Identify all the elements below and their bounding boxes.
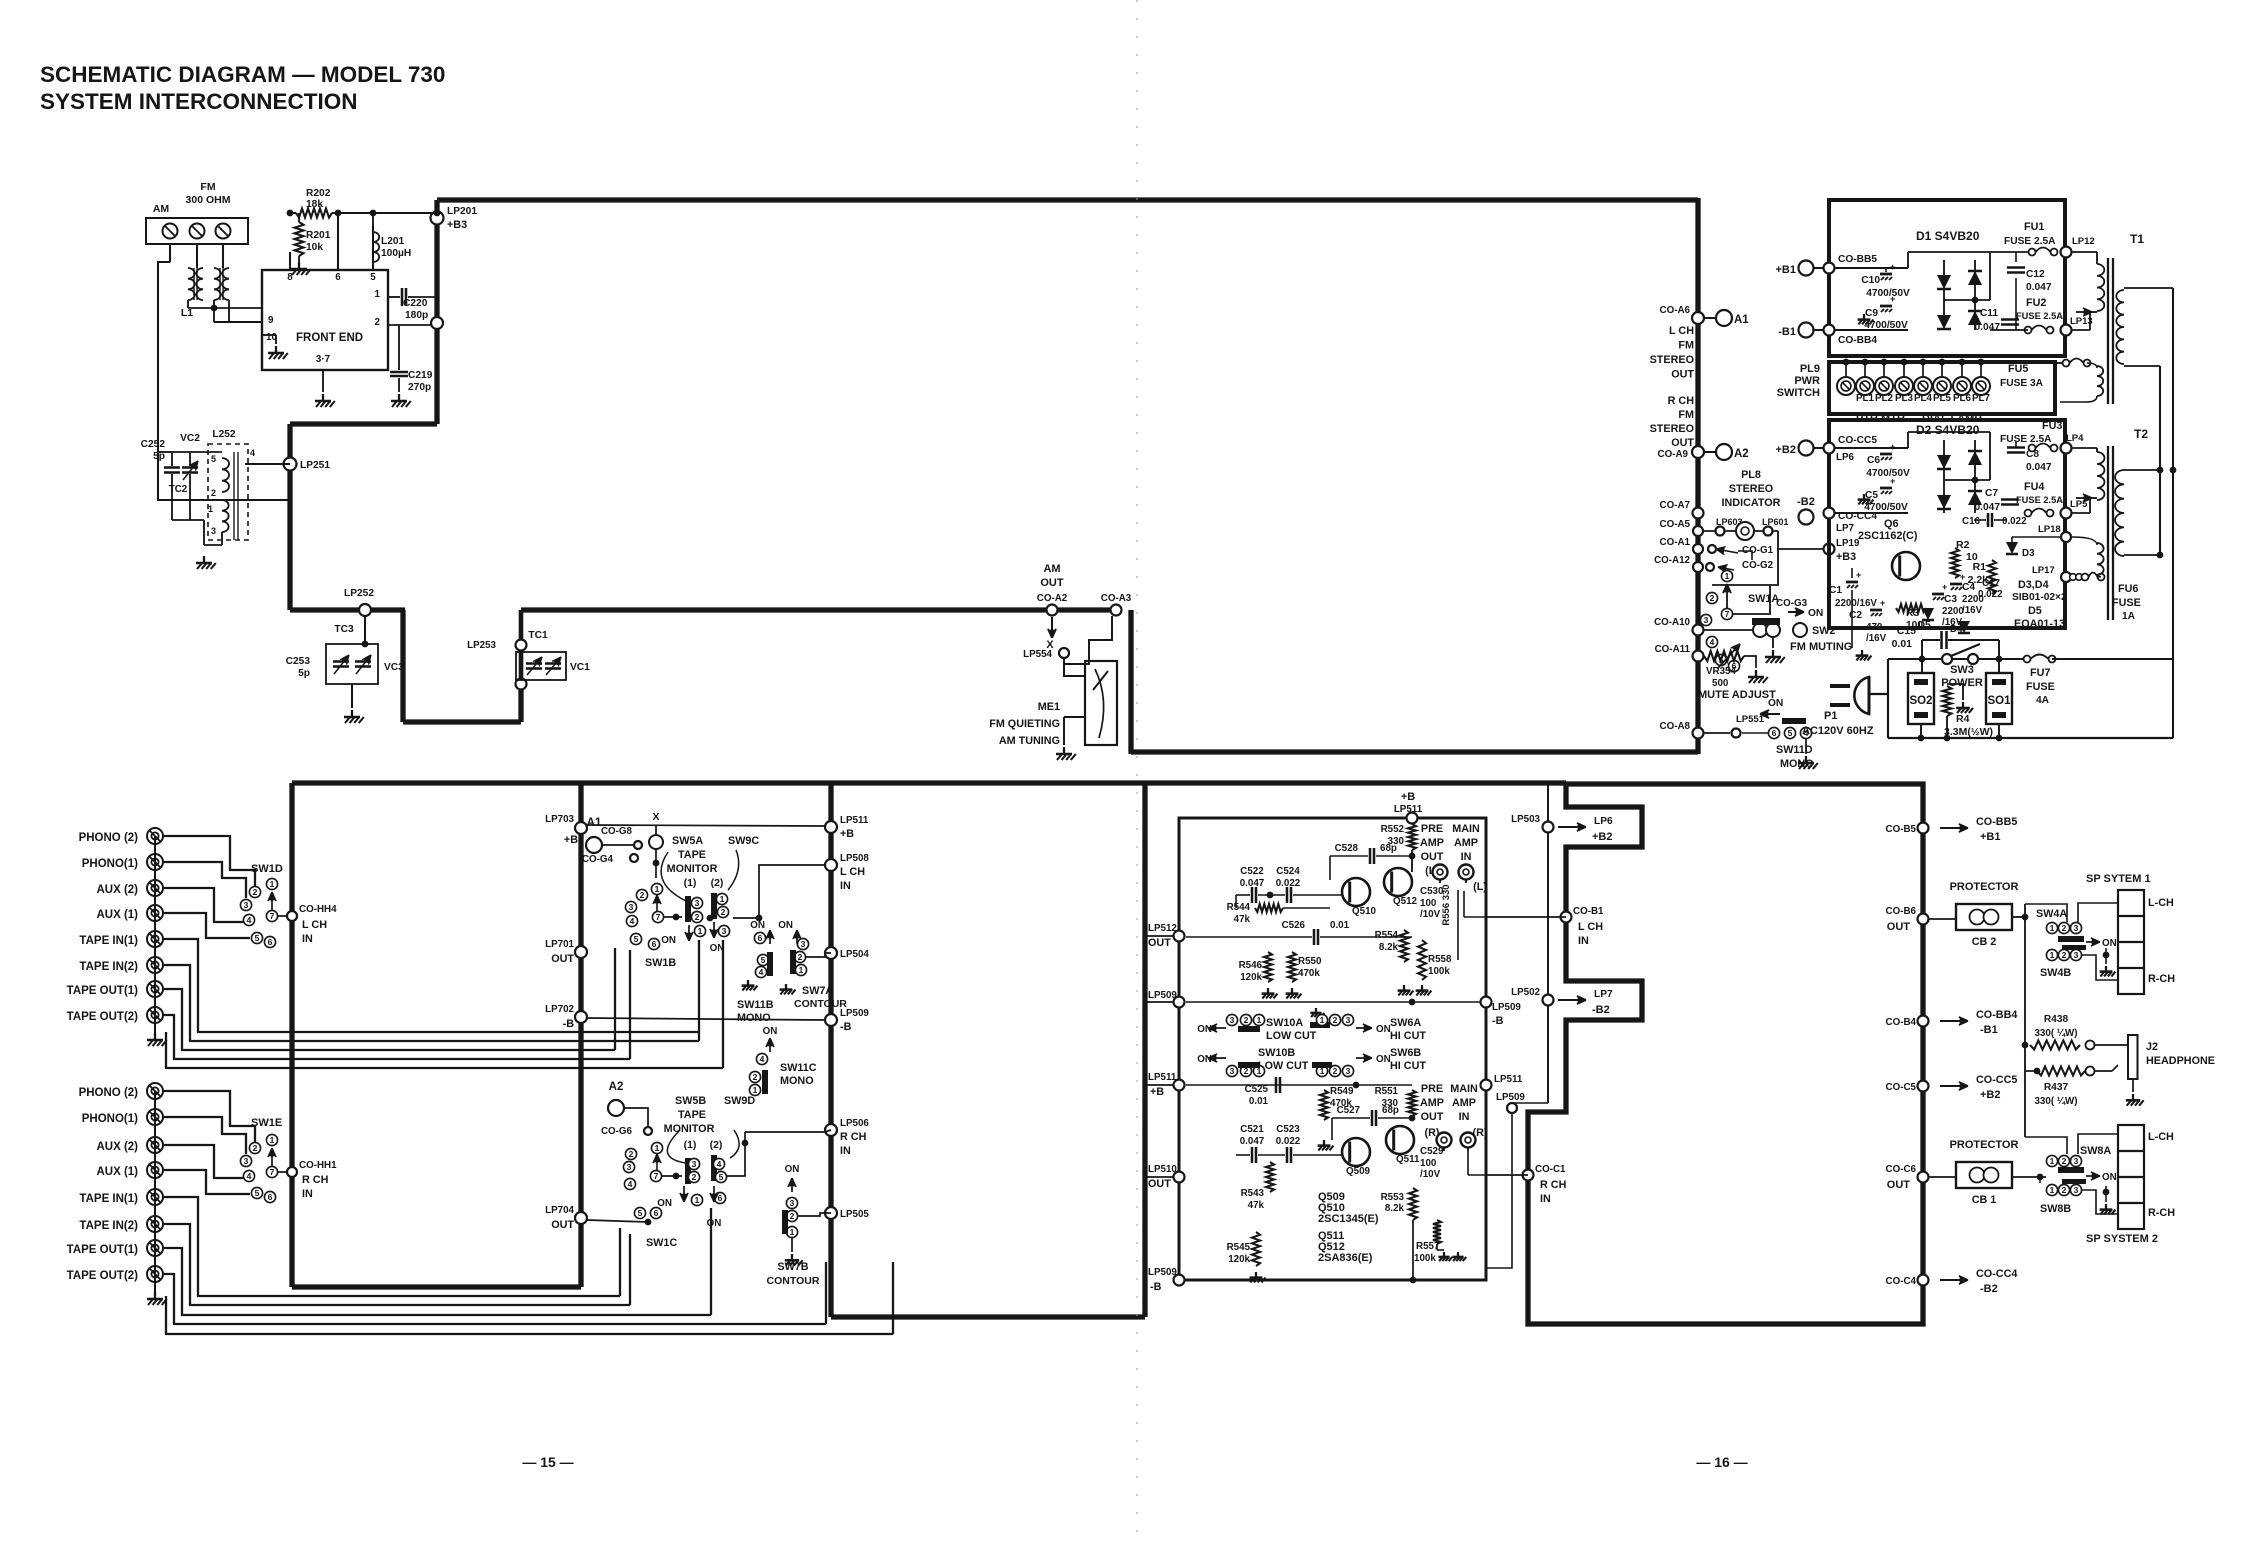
- svg-text:1: 1: [790, 1227, 795, 1237]
- svg-text:C252: C252: [141, 439, 166, 450]
- svg-text:0.022: 0.022: [2002, 516, 2027, 527]
- svg-text:LP509: LP509: [1496, 1092, 1525, 1103]
- svg-text:CO-B4: CO-B4: [1886, 1017, 1917, 1028]
- svg-text:-B: -B: [1492, 1015, 1504, 1027]
- svg-text:-B2: -B2: [1797, 496, 1815, 508]
- svg-text:-B: -B: [840, 1021, 852, 1033]
- svg-text:A1: A1: [587, 817, 602, 829]
- svg-text:PL3: PL3: [1895, 393, 1914, 404]
- svg-text:LP510: LP510: [1148, 1164, 1177, 1175]
- svg-text:4: 4: [759, 967, 764, 977]
- svg-text:C528: C528: [1335, 843, 1359, 854]
- svg-text:SP SYTEM 1: SP SYTEM 1: [2086, 873, 2151, 885]
- svg-text:5: 5: [255, 1188, 260, 1198]
- svg-text:IN: IN: [302, 1188, 313, 1200]
- svg-text:SWITCH: SWITCH: [1777, 387, 1820, 399]
- svg-text:FM QUIETING: FM QUIETING: [989, 718, 1060, 730]
- svg-text:6: 6: [718, 1193, 723, 1203]
- svg-text:FUSE: FUSE: [2026, 681, 2055, 693]
- svg-text:SW6A: SW6A: [1390, 1017, 1421, 1029]
- svg-text:0.022: 0.022: [1276, 1136, 1301, 1147]
- svg-text:FM: FM: [1678, 340, 1694, 352]
- svg-text:SW10A: SW10A: [1266, 1017, 1303, 1029]
- svg-text:1: 1: [270, 879, 275, 889]
- svg-text:0.01: 0.01: [1249, 1096, 1269, 1107]
- svg-text:ON: ON: [707, 1218, 722, 1229]
- svg-text:0.047: 0.047: [2026, 462, 2052, 473]
- svg-text:A1: A1: [1734, 314, 1749, 326]
- svg-text:LP511: LP511: [840, 815, 869, 826]
- svg-text:6: 6: [758, 933, 763, 943]
- svg-text:/16V: /16V: [1866, 633, 1887, 644]
- svg-text:FUSE 2.5A: FUSE 2.5A: [2016, 311, 2063, 321]
- svg-text:SW6B: SW6B: [1390, 1047, 1421, 1059]
- svg-text:2: 2: [253, 1143, 258, 1153]
- svg-text:AUX (2): AUX (2): [96, 1141, 138, 1153]
- svg-text:FRONT END: FRONT END: [296, 332, 363, 344]
- svg-text:CO-A5: CO-A5: [1660, 519, 1691, 530]
- svg-text:OUT: OUT: [1887, 921, 1911, 933]
- svg-text:1: 1: [375, 289, 381, 300]
- svg-text:1A: 1A: [2122, 611, 2136, 622]
- svg-text:CO-A8: CO-A8: [1660, 721, 1691, 732]
- svg-text:C17: C17: [1982, 578, 2001, 589]
- svg-text:PHONO (2): PHONO (2): [79, 1087, 139, 1099]
- svg-text:CO-C6: CO-C6: [1886, 1164, 1917, 1175]
- svg-text:TAPE IN(2): TAPE IN(2): [79, 961, 138, 973]
- svg-text:AMP: AMP: [1452, 1097, 1476, 1109]
- svg-text:LP17: LP17: [2032, 565, 2055, 576]
- svg-text:-B: -B: [1150, 1281, 1162, 1293]
- svg-text:2SC1345(E): 2SC1345(E): [1318, 1213, 1379, 1225]
- svg-text:CB 2: CB 2: [1972, 936, 1997, 948]
- svg-text:2: 2: [2062, 950, 2067, 960]
- svg-text:3: 3: [627, 1162, 632, 1172]
- svg-text:ON: ON: [1376, 1054, 1391, 1065]
- svg-text:OUT: OUT: [1671, 437, 1694, 449]
- svg-text:R549: R549: [1330, 1086, 1354, 1097]
- svg-text:C522: C522: [1240, 866, 1264, 877]
- svg-text:SW4B: SW4B: [2040, 967, 2071, 979]
- svg-text:PL8: PL8: [1741, 469, 1761, 481]
- svg-text:5: 5: [761, 955, 766, 965]
- svg-text:C525: C525: [1245, 1084, 1269, 1095]
- svg-text:-B1: -B1: [1778, 326, 1796, 338]
- svg-text:3: 3: [2074, 1156, 2079, 1166]
- svg-text:2: 2: [1333, 1066, 1338, 1076]
- svg-text:5: 5: [638, 1208, 643, 1218]
- svg-text:1: 1: [2050, 950, 2055, 960]
- svg-text:18k: 18k: [306, 199, 323, 210]
- svg-text:CB 1: CB 1: [1972, 1194, 1997, 1206]
- svg-text:PRE: PRE: [1421, 1083, 1443, 1095]
- svg-text:CO-A6: CO-A6: [1660, 305, 1691, 316]
- svg-text:0.047: 0.047: [1240, 1136, 1265, 1147]
- svg-text:+B1: +B1: [1980, 831, 2001, 843]
- svg-text:R CH: R CH: [1668, 395, 1695, 407]
- svg-text:3: 3: [1230, 1015, 1235, 1025]
- svg-text:2: 2: [798, 952, 803, 962]
- svg-text:120k: 120k: [1240, 972, 1262, 983]
- svg-text:(1): (1): [684, 1139, 697, 1151]
- svg-text:1: 1: [655, 884, 660, 894]
- svg-text:ME1: ME1: [1038, 701, 1060, 713]
- svg-text:C529: C529: [1420, 1146, 1444, 1157]
- svg-text:L CH: L CH: [1669, 325, 1694, 337]
- svg-text:— 16 —: — 16 —: [1696, 1454, 1747, 1470]
- svg-text:2: 2: [1244, 1015, 1249, 1025]
- svg-text:LP702: LP702: [545, 1004, 574, 1015]
- svg-text:LP7: LP7: [1594, 989, 1613, 1000]
- svg-text:HI CUT: HI CUT: [1390, 1030, 1426, 1042]
- svg-text:C523: C523: [1276, 1124, 1300, 1135]
- svg-text:3: 3: [801, 939, 806, 949]
- svg-text:CO-CC5: CO-CC5: [1976, 1074, 2017, 1086]
- svg-text:+: +: [1890, 476, 1895, 486]
- svg-text:1: 1: [753, 1085, 758, 1095]
- svg-text:R-CH: R-CH: [2148, 1207, 2175, 1219]
- svg-text:R543: R543: [1241, 1188, 1265, 1199]
- svg-text:L201: L201: [381, 236, 405, 247]
- svg-text:2: 2: [692, 1172, 697, 1182]
- svg-text:PRE: PRE: [1421, 823, 1443, 835]
- svg-text:TC2: TC2: [169, 484, 188, 495]
- svg-text:270p: 270p: [408, 382, 431, 393]
- svg-text:X: X: [652, 811, 659, 823]
- svg-text:D4: D4: [1950, 624, 1963, 635]
- svg-text:IN: IN: [1540, 1193, 1551, 1205]
- svg-text:3: 3: [1230, 1066, 1235, 1076]
- svg-text:CO-BB4: CO-BB4: [1838, 335, 1877, 346]
- svg-text:LP6: LP6: [1836, 452, 1855, 463]
- svg-text:AMP: AMP: [1454, 837, 1478, 849]
- svg-text:AMP: AMP: [1420, 837, 1444, 849]
- svg-text:-B2: -B2: [1980, 1283, 1998, 1295]
- svg-text:3·7: 3·7: [316, 354, 331, 365]
- svg-text:R558: R558: [1428, 954, 1452, 965]
- svg-text:120k: 120k: [1228, 1254, 1250, 1265]
- svg-text:CO-BB5: CO-BB5: [1838, 254, 1877, 265]
- svg-text:CONTOUR: CONTOUR: [794, 998, 847, 1010]
- svg-text:SO1: SO1: [1987, 695, 2011, 707]
- svg-text:(1): (1): [684, 877, 697, 889]
- svg-text:FU4: FU4: [2024, 481, 2044, 493]
- svg-text:2: 2: [211, 488, 216, 498]
- svg-text:1: 1: [695, 1195, 700, 1205]
- svg-text:8.2k: 8.2k: [1385, 1203, 1405, 1214]
- svg-text:3: 3: [244, 1156, 249, 1166]
- svg-text:R CH: R CH: [1540, 1179, 1567, 1191]
- svg-text:FU1: FU1: [2024, 221, 2044, 233]
- svg-text:5: 5: [370, 272, 376, 283]
- svg-text:3: 3: [692, 1159, 697, 1169]
- svg-text:TC1: TC1: [528, 630, 548, 641]
- svg-text:C10: C10: [1861, 275, 1880, 286]
- svg-text:6: 6: [652, 939, 657, 949]
- svg-text:CO-A3: CO-A3: [1101, 593, 1132, 604]
- svg-text:4: 4: [250, 448, 255, 458]
- svg-text:/10V: /10V: [1420, 1169, 1441, 1180]
- svg-text:CO-BB4: CO-BB4: [1976, 1009, 2017, 1021]
- svg-text:LP506: LP506: [840, 1118, 869, 1129]
- svg-text:4: 4: [630, 916, 635, 926]
- svg-text:— 15 —: — 15 —: [522, 1454, 573, 1470]
- svg-text:+B2: +B2: [1980, 1089, 2001, 1101]
- svg-text:3.3M(½W): 3.3M(½W): [1944, 726, 1993, 738]
- svg-text:7: 7: [656, 912, 661, 922]
- svg-text:C9: C9: [1865, 308, 1878, 319]
- svg-text:C1: C1: [1829, 585, 1842, 596]
- svg-text:MONO: MONO: [737, 1012, 771, 1024]
- svg-text:7: 7: [270, 1167, 275, 1177]
- svg-text:PROTECTOR: PROTECTOR: [1950, 1139, 2019, 1151]
- svg-text:LP6: LP6: [1594, 816, 1613, 827]
- svg-text:4: 4: [247, 1171, 252, 1181]
- svg-text:C527: C527: [1337, 1105, 1361, 1116]
- svg-text:CONTOUR: CONTOUR: [767, 1275, 820, 1287]
- svg-text:LP505: LP505: [840, 1209, 869, 1220]
- svg-text:ON: ON: [763, 1026, 778, 1037]
- svg-text:6: 6: [654, 1208, 659, 1218]
- svg-text:C2: C2: [1849, 610, 1862, 621]
- svg-text:VC3: VC3: [384, 662, 404, 673]
- svg-text:CO-G4: CO-G4: [582, 854, 614, 865]
- svg-text:2: 2: [2062, 1185, 2067, 1195]
- svg-text:SW5A: SW5A: [672, 835, 703, 847]
- svg-text:FU6: FU6: [2118, 583, 2138, 595]
- svg-text:TAPE IN(2): TAPE IN(2): [79, 1220, 138, 1232]
- svg-text:FU7: FU7: [2030, 667, 2050, 679]
- svg-text:4: 4: [628, 1179, 633, 1189]
- svg-text:R CH: R CH: [840, 1131, 867, 1143]
- svg-text:0.047: 0.047: [1975, 322, 2001, 333]
- svg-text:CO-CC4: CO-CC4: [1976, 1268, 2017, 1280]
- svg-text:A2: A2: [609, 1081, 624, 1093]
- svg-text:CO-HH1: CO-HH1: [299, 1160, 337, 1171]
- svg-text:R202: R202: [306, 188, 331, 199]
- svg-text:AUX (2): AUX (2): [96, 884, 138, 896]
- svg-text:R553: R553: [1381, 1192, 1405, 1203]
- svg-text:5: 5: [255, 933, 260, 943]
- svg-text:Q512: Q512: [1393, 896, 1418, 907]
- svg-text:4700/50V: 4700/50V: [1866, 468, 1910, 479]
- svg-text:0.047: 0.047: [1975, 502, 2001, 513]
- svg-text:1: 1: [1320, 1015, 1325, 1025]
- svg-text:R CH: R CH: [302, 1174, 329, 1186]
- svg-text:PL2: PL2: [1875, 393, 1894, 404]
- svg-text:FUSE 3A: FUSE 3A: [2000, 378, 2044, 389]
- svg-text:LP551: LP551: [1736, 714, 1765, 725]
- svg-text:0.01: 0.01: [1892, 638, 1913, 650]
- svg-text:FUSE 2.5A: FUSE 2.5A: [2016, 495, 2063, 505]
- svg-text:LP253: LP253: [467, 640, 496, 651]
- svg-text:STEREO: STEREO: [1650, 354, 1694, 366]
- svg-text:8.2k: 8.2k: [1379, 942, 1399, 953]
- svg-text:MONITOR: MONITOR: [664, 1123, 715, 1135]
- svg-text:3: 3: [1346, 1015, 1351, 1025]
- svg-text:5: 5: [1788, 728, 1793, 738]
- svg-text:R556 330: R556 330: [1441, 884, 1452, 925]
- svg-text:7: 7: [654, 1171, 659, 1181]
- svg-text:SP SYSTEM 2: SP SYSTEM 2: [2086, 1233, 2158, 1245]
- svg-text:CO-BB5: CO-BB5: [1976, 816, 2017, 828]
- svg-text:SW1A: SW1A: [1748, 593, 1779, 605]
- svg-text:2SA836(E): 2SA836(E): [1318, 1252, 1373, 1264]
- svg-text:SW8A: SW8A: [2080, 1145, 2111, 1157]
- svg-text:+B: +B: [1150, 1086, 1164, 1098]
- svg-text:C521: C521: [1240, 1124, 1264, 1135]
- svg-text:PL6: PL6: [1953, 393, 1972, 404]
- svg-text:47k: 47k: [1248, 1200, 1265, 1211]
- svg-text:4: 4: [760, 1054, 765, 1064]
- svg-text:SW11D: SW11D: [1776, 744, 1813, 756]
- svg-text:100k: 100k: [1414, 1253, 1436, 1264]
- svg-text:C3: C3: [1944, 594, 1957, 605]
- svg-text:1: 1: [2050, 1185, 2055, 1195]
- svg-text:IN: IN: [1578, 935, 1589, 947]
- svg-text:LP18: LP18: [2038, 524, 2061, 535]
- svg-text:R544: R544: [1227, 902, 1251, 913]
- svg-text:C12: C12: [2026, 269, 2045, 280]
- svg-text:(2): (2): [711, 877, 724, 889]
- svg-text:C253: C253: [286, 656, 311, 667]
- svg-text:6: 6: [335, 272, 341, 283]
- svg-text:1: 1: [2050, 923, 2055, 933]
- svg-text:CO-G3: CO-G3: [1776, 598, 1808, 609]
- svg-text:3: 3: [1704, 615, 1709, 625]
- svg-text:D5: D5: [1918, 620, 1931, 631]
- svg-text:LP511: LP511: [1494, 1074, 1523, 1085]
- svg-text:+B3: +B3: [447, 219, 467, 231]
- svg-text:+: +: [1880, 598, 1885, 608]
- svg-text:SW4A: SW4A: [2036, 908, 2067, 920]
- svg-text:5p: 5p: [298, 668, 310, 679]
- svg-text:0.022: 0.022: [1978, 589, 2003, 600]
- svg-text:ON: ON: [1768, 698, 1783, 709]
- svg-text:1: 1: [1725, 571, 1730, 581]
- svg-text:SCHEMATIC DIAGRAM — MODEL 730: SCHEMATIC DIAGRAM — MODEL 730: [40, 62, 445, 87]
- svg-text:68p: 68p: [1382, 1105, 1399, 1116]
- svg-text:+: +: [1890, 442, 1895, 452]
- svg-text:SW3: SW3: [1950, 664, 1974, 676]
- svg-text:1: 1: [1257, 1015, 1262, 1025]
- svg-text:CO-C4: CO-C4: [1886, 1276, 1917, 1287]
- svg-text:L CH: L CH: [1578, 921, 1603, 933]
- svg-text:AUX (1): AUX (1): [96, 909, 138, 921]
- svg-text:2SC1162(C): 2SC1162(C): [1858, 530, 1918, 542]
- svg-text:SW9C: SW9C: [728, 835, 759, 847]
- svg-text:LP7: LP7: [1836, 523, 1855, 534]
- svg-text:1: 1: [720, 894, 725, 904]
- svg-text:Q511: Q511: [1396, 1154, 1420, 1165]
- svg-text:MUTE ADJUST: MUTE ADJUST: [1698, 689, 1776, 701]
- svg-text:IN: IN: [840, 880, 851, 892]
- svg-text:FU5: FU5: [2008, 363, 2028, 375]
- svg-text:L CH: L CH: [840, 866, 865, 878]
- svg-text:T1: T1: [2130, 232, 2144, 246]
- svg-text:C219: C219: [408, 370, 433, 381]
- svg-text:ON: ON: [657, 1198, 672, 1209]
- svg-text:0.01: 0.01: [1330, 920, 1350, 931]
- svg-text:3: 3: [2074, 950, 2079, 960]
- svg-text:TAPE OUT(2): TAPE OUT(2): [67, 1011, 139, 1023]
- svg-text:LP511: LP511: [1148, 1072, 1177, 1083]
- svg-text:ON: ON: [1376, 1024, 1391, 1035]
- svg-text:HI CUT: HI CUT: [1390, 1060, 1426, 1072]
- svg-text:3: 3: [695, 898, 700, 908]
- svg-text:TC3: TC3: [334, 624, 354, 635]
- svg-text:-B2: -B2: [1592, 1004, 1610, 1016]
- svg-text:SW5B: SW5B: [675, 1095, 706, 1107]
- svg-text:470k: 470k: [1298, 968, 1320, 979]
- svg-text:CO-C5: CO-C5: [1886, 1082, 1917, 1093]
- svg-text:2: 2: [629, 1149, 634, 1159]
- svg-text:TAPE OUT(1): TAPE OUT(1): [67, 985, 139, 997]
- svg-text:(L): (L): [1473, 881, 1487, 893]
- svg-text:PHONO (2): PHONO (2): [79, 832, 139, 844]
- svg-text:MAIN: MAIN: [1450, 1083, 1478, 1095]
- svg-text:68p: 68p: [1380, 843, 1397, 854]
- svg-text:+: +: [1856, 570, 1861, 580]
- svg-text:LP601: LP601: [1762, 517, 1789, 527]
- svg-text:SW11C: SW11C: [780, 1062, 817, 1074]
- svg-text:R551: R551: [1375, 1086, 1399, 1097]
- svg-text:+B3: +B3: [1836, 551, 1856, 563]
- svg-text:OUT: OUT: [1421, 851, 1444, 863]
- svg-text:J2: J2: [2146, 1041, 2158, 1053]
- svg-text:2: 2: [375, 317, 381, 328]
- svg-text:LP704: LP704: [545, 1205, 574, 1216]
- svg-text:10k: 10k: [306, 242, 323, 253]
- svg-text:D2 S4VB20: D2 S4VB20: [1916, 423, 1980, 437]
- svg-text:LOW CUT: LOW CUT: [1266, 1030, 1317, 1042]
- svg-text:R-CH: R-CH: [2148, 973, 2175, 985]
- svg-text:C526: C526: [1282, 920, 1306, 931]
- svg-text:100µH: 100µH: [381, 248, 411, 259]
- svg-text:IN: IN: [1459, 1111, 1470, 1123]
- svg-text:LP12: LP12: [2072, 236, 2095, 247]
- svg-text:FU3: FU3: [2042, 420, 2062, 432]
- svg-text:C6: C6: [1867, 455, 1880, 466]
- svg-text:EQA01-13: EQA01-13: [2014, 618, 2065, 630]
- svg-text:TAPE: TAPE: [678, 1109, 706, 1121]
- svg-text:5: 5: [634, 934, 639, 944]
- svg-text:LP508: LP508: [840, 853, 869, 864]
- svg-text:AM TUNING: AM TUNING: [999, 735, 1060, 747]
- svg-text:PL5: PL5: [1933, 393, 1952, 404]
- svg-text:PHONO(1): PHONO(1): [82, 1113, 138, 1125]
- svg-text:3: 3: [722, 926, 727, 936]
- svg-text:SO2: SO2: [1909, 695, 1932, 707]
- svg-text:2: 2: [1333, 1015, 1338, 1025]
- svg-text:T2: T2: [2134, 427, 2148, 441]
- svg-text:2: 2: [695, 912, 700, 922]
- svg-text:100: 100: [1420, 898, 1437, 909]
- svg-text:LP19: LP19: [1836, 538, 1860, 549]
- svg-text:3: 3: [244, 900, 249, 910]
- svg-text:CO-A2: CO-A2: [1037, 593, 1068, 604]
- svg-text:LP509: LP509: [1492, 1002, 1521, 1013]
- svg-text:C7: C7: [1985, 488, 1998, 499]
- svg-text:C220: C220: [403, 298, 428, 309]
- svg-text:2: 2: [2062, 1156, 2067, 1166]
- svg-text:OUT: OUT: [1040, 577, 1064, 589]
- svg-text:500: 500: [1712, 678, 1729, 689]
- svg-text:R437: R437: [2044, 1082, 2069, 1093]
- svg-text:ON: ON: [778, 920, 793, 931]
- svg-text:SW7B: SW7B: [777, 1261, 808, 1273]
- svg-text:2: 2: [253, 887, 258, 897]
